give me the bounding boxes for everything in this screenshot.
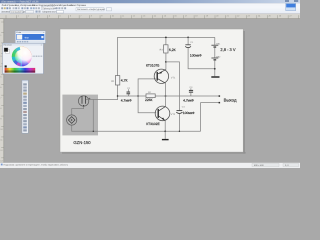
wire: C1 to ground link [188, 48, 215, 69]
transistor VT2 KT3102E (NPN) [155, 106, 170, 121]
wire: mic output feeder [93, 96, 117, 100]
resistor R2 226K (feedback) [146, 94, 155, 98]
svg-text:Подсказка: щелкните и перетащи: Подсказка: щелкните и перетащите, чтобы … [4, 164, 69, 167]
node: collectors junction [165, 95, 167, 97]
wire: bottom ground rail [72, 125, 201, 131]
svg-text:4,7мкФ: 4,7мкФ [183, 99, 194, 103]
svg-text:Фон: Фон [25, 36, 30, 39]
svg-text:Слои: Слои [32, 4, 38, 7]
svg-text:Запомнить конфигурацию: Запомнить конфигурацию [77, 8, 105, 11]
workspace [0, 19, 300, 163]
svg-text:2,8 - 3 V: 2,8 - 3 V [220, 47, 235, 52]
color wheel [12, 47, 32, 67]
image thumbnail tab (top right) [286, 3, 296, 10]
svg-text:4,7мкФ: 4,7мкФ [121, 98, 132, 102]
capacitor C2 4.7mkF (input) [127, 89, 129, 91]
capacitor C4 100mkF (bypass, electrolytic) [177, 110, 183, 112]
svg-text:VT1: VT1 [171, 76, 176, 79]
wire: to both bases [138, 79, 156, 113]
svg-text:Выход: Выход [224, 97, 237, 102]
resistor R3 6.2K (emitter) [165, 37, 167, 44]
wire: main signal line [118, 95, 220, 97]
wire: emitter bypass branch [166, 62, 180, 110]
svg-text:GB2: GB2 [216, 55, 221, 58]
node: emitter/bypass junction [165, 61, 167, 63]
horizontal ruler [0, 14, 300, 19]
wire: VT1 collector stub [165, 83, 167, 96]
microphone M1 circle [78, 96, 88, 106]
resistor R1 4.7K [115, 76, 119, 85]
svg-text:GB1: GB1 [216, 43, 221, 46]
svg-text:x: x [43, 31, 44, 34]
status bar [0, 163, 300, 168]
svg-text:GZN-150: GZN-150 [73, 140, 91, 145]
ground symbol (bottom) [164, 131, 166, 139]
svg-text:100мкФ: 100мкФ [183, 111, 195, 115]
svg-text:100мкФ: 100мкФ [190, 53, 202, 57]
piezo element BQ1 circle [67, 115, 77, 125]
transistor VT1 KT3107 (PNP) [154, 69, 168, 83]
window buttons [285, 0, 289, 1]
node: input junction [117, 95, 119, 97]
output terminal 2 [219, 102, 221, 104]
layers window [15, 31, 45, 43]
tools window [22, 80, 28, 133]
battery GB1 [214, 37, 216, 45]
wire: top supply rail [118, 37, 215, 96]
svg-text:Прямоугольник: Прямоугольник [42, 7, 58, 10]
svg-text:6,2К: 6,2К [169, 48, 176, 52]
wire: mic to piezo [72, 106, 84, 115]
capacitor C3 4.7mkF (output) [190, 88, 192, 90]
svg-text:4,7К: 4,7К [121, 79, 128, 83]
ground symbol (battery) [211, 76, 219, 77]
wire: mic return branch [86, 100, 93, 132]
svg-text:Палитра: Палитра [4, 43, 13, 46]
menu bar [0, 3, 300, 6]
canvas [243, 31, 245, 154]
output terminal 1 [219, 95, 221, 97]
svg-text:Вид: Вид [15, 4, 20, 7]
node: base junction [137, 95, 139, 97]
svg-text:226К: 226К [145, 98, 153, 102]
vertical ruler [0, 19, 4, 163]
colors window [3, 43, 44, 74]
svg-text:Сплошной цвет: Сплошной цвет [11, 10, 27, 13]
svg-text:800 x 600: 800 x 600 [254, 164, 264, 167]
wire: output ground leg [201, 103, 220, 132]
node: emitter-rail junction [164, 130, 166, 132]
svg-text:Заливка:: Заливка: [1, 10, 11, 13]
svg-text:x: x [41, 43, 42, 46]
microphone module selection box [62, 95, 98, 136]
svg-text:КТ3102Е: КТ3102Е [146, 122, 160, 126]
svg-text:Ширина кисти:: Ширина кисти: [43, 10, 59, 13]
svg-text:VT2: VT2 [171, 113, 176, 116]
plus mark of microphone [88, 98, 90, 100]
title bar [0, 0, 300, 3]
svg-text:Слои: Слои [16, 31, 21, 34]
svg-text:Справка: Справка [77, 4, 87, 7]
toolbar [0, 7, 300, 14]
svg-text:КТ3107Б: КТ3107Б [146, 64, 159, 68]
node: battery minus junction [214, 68, 216, 70]
capacitor C1 100mkF (supply filter) [187, 37, 189, 39]
